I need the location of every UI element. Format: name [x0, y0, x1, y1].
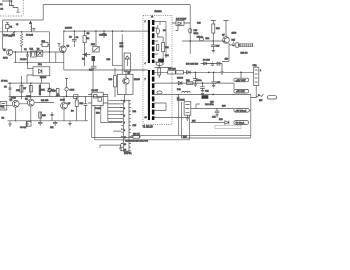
inductor L5: [182, 91, 190, 92]
svg-text:D8 C18: D8 C18: [203, 60, 211, 62]
inductor L2 vertical winding: [20, 32, 23, 52]
ground GND2: [25, 121, 28, 127]
ground GND1: [8, 121, 11, 127]
svg-text:C13: C13: [197, 23, 202, 25]
svg-text:C3: C3: [76, 37, 79, 39]
aux diode D15: [157, 91, 162, 94]
ferrite FB1 (dark): [202, 95, 209, 99]
svg-text:R7: R7: [24, 88, 27, 90]
svg-text:1M: 1M: [87, 33, 90, 35]
mains bus right: [58, 31, 146, 47]
IC U1 (controller): [123, 100, 129, 151]
junction D: [213, 72, 215, 74]
diode D11: [186, 70, 190, 74]
aux cap C14 (dark): [158, 59, 164, 63]
svg-text:2N60: 2N60: [232, 33, 238, 35]
svg-text:R12: R12: [80, 103, 85, 105]
pill +5V: [234, 89, 249, 93]
secondary tap wires: [154, 67, 189, 117]
svg-text:AC: AC: [0, 8, 3, 11]
svg-text:R38: R38: [219, 119, 224, 121]
TH1 stem: [93, 61, 95, 70]
svg-text:C16 1n: C16 1n: [197, 37, 203, 39]
svg-text:C945: C945: [70, 89, 76, 91]
transistor Q4: [27, 99, 34, 106]
HV rail: [189, 5, 191, 41]
feedback loop wires: [179, 94, 251, 139]
capacitor C12: [102, 31, 106, 38]
svg-text:C23: C23: [212, 117, 217, 119]
junction n10: [66, 96, 67, 97]
U1 pins right: [129, 100, 131, 150]
svg-text:R24: R24: [206, 38, 211, 40]
junction n8: [95, 30, 96, 31]
junction P1: [11, 0, 13, 2]
svg-text:Q5: Q5: [68, 103, 72, 105]
resistor R12: [75, 97, 78, 121]
junction n4: [122, 30, 123, 31]
vertical drops to bridge: [27, 63, 33, 83]
primary pin wires: [126, 31, 148, 70]
aux winding tap wires: [154, 22, 160, 63]
rail PS-ON wire: [191, 110, 251, 122]
junction B: [213, 40, 215, 42]
diode D14: [225, 121, 229, 125]
T1 primary bar: [148, 20, 150, 63]
thermistor block TH1 (dark): [92, 56, 96, 61]
svg-text:C7 331: C7 331: [1, 81, 8, 83]
bus y62.7: [14, 52, 64, 63]
resistor R8: [29, 86, 32, 93]
svg-text:C3: C3: [69, 37, 72, 39]
sense diode D7: [232, 42, 235, 47]
capacitor CX1: [12, 32, 15, 36]
svg-text:5V 20mA: 5V 20mA: [236, 122, 245, 125]
row y62 diode D8: [201, 62, 223, 67]
svg-text:R25: R25: [194, 30, 199, 32]
optocoupler U2: [88, 92, 108, 105]
svg-text:1: 1: [145, 21, 147, 23]
switch transistor box Q6: [117, 70, 145, 100]
svg-text:R4: R4: [87, 38, 90, 40]
svg-text:R22: R22: [165, 47, 170, 49]
ground GND4: [220, 64, 223, 75]
svg-text:C12 222: C12 222: [99, 35, 107, 37]
aux diode D6: [156, 25, 159, 37]
feedback wires to secondary: [131, 135, 190, 140]
svg-text:U2 817: U2 817: [92, 90, 99, 92]
junction n6: [74, 30, 75, 31]
junction n17: [30, 82, 31, 83]
junction E: [202, 82, 204, 84]
pill +12V: [234, 72, 249, 81]
diode D12: [178, 81, 182, 85]
svg-text:R19: R19: [96, 113, 101, 115]
transistor Q1: [7, 49, 13, 55]
filter cap C20: [211, 72, 216, 88]
base bus y105.7: [0, 103, 54, 106]
svg-text:R18: R18: [107, 59, 112, 61]
ground GND5: [186, 115, 189, 120]
bus y83: [8, 82, 50, 84]
svg-text:Q2: Q2: [67, 46, 71, 48]
junction n15: [9, 82, 10, 83]
svg-text:L3 2mH: L3 2mH: [26, 35, 34, 37]
svg-text:PC817: PC817: [95, 108, 102, 110]
diode D2 cluster: [82, 53, 90, 56]
svg-text:C21: C21: [205, 91, 210, 93]
T1 secondary winding segments lower: [152, 70, 155, 120]
svg-text:C5: C5: [4, 87, 7, 89]
zener ZD1: [48, 89, 51, 97]
svg-text:C25: C25: [133, 125, 138, 127]
svg-text:D3: D3: [71, 111, 74, 113]
svg-text:0R22: 0R22: [194, 33, 200, 35]
pill under-label box: [215, 125, 241, 128]
T1 internal wire: [157, 22, 166, 63]
junction n12: [27, 51, 28, 52]
ground GND7: [201, 93, 204, 96]
wire row y54: [13, 52, 64, 63]
svg-text:1000u: 1000u: [196, 80, 202, 82]
T1 secondary winding segments upper: [152, 20, 155, 63]
junction n1: [14, 31, 15, 32]
aux resistor R41: [157, 45, 159, 51]
capacitor C8: [51, 115, 54, 116]
sense resistor R27: [236, 43, 239, 47]
svg-text:R36: R36: [222, 106, 227, 108]
resistor pair R30: [168, 71, 184, 74]
U1 pins left: [121, 100, 123, 150]
svg-text:7: 7: [145, 79, 147, 81]
left edge box J2: [0, 102, 7, 111]
svg-text:BD1: BD1: [38, 64, 43, 66]
junction n9: [103, 30, 104, 31]
photoresistor box U3: [37, 50, 43, 56]
power switch SW1: [251, 94, 264, 97]
CY caps pair: [38, 121, 57, 126]
svg-text:K2645: K2645: [134, 79, 141, 81]
resistor R10b (dark): [39, 85, 41, 96]
box component X2: [26, 122, 31, 127]
svg-text:R11 150: R11 150: [41, 100, 49, 102]
resistor R33: [187, 82, 193, 85]
pill ACSW: [267, 96, 276, 99]
wire mains to filter: [3, 5, 191, 49]
svg-text:1: 1: [124, 101, 125, 103]
svg-text:3: 3: [124, 108, 125, 110]
U1 pin dots: [121, 100, 122, 101]
svg-text:R30 R31: R30 R31: [168, 69, 177, 71]
svg-text:100K: 100K: [40, 90, 45, 92]
rail standby wire: [191, 104, 234, 108]
junction n19: [15, 120, 16, 121]
svg-text:Q7: Q7: [222, 35, 226, 37]
cap C23: [215, 108, 220, 117]
rail +5V wire: [176, 82, 234, 84]
svg-text:7: 7: [124, 123, 125, 125]
capacitor C28: [84, 97, 88, 121]
resistor R10: [39, 112, 42, 118]
U1 pin numbers: [124, 101, 126, 152]
wire row y47: [3, 48, 7, 50]
svg-text:2M2: 2M2: [120, 46, 125, 48]
ground bus y120.8: [8, 106, 89, 121]
svg-text:C2: C2: [24, 49, 27, 51]
svg-text:13: 13: [124, 144, 126, 146]
svg-text:CX1: CX1: [11, 35, 16, 37]
J3 bottom wire: [255, 86, 257, 98]
svg-text:R28 0.5: R28 0.5: [241, 53, 249, 55]
svg-text:EE2519: EE2519: [155, 11, 163, 13]
output connector J3: [254, 67, 259, 85]
VCC tee 1: [211, 21, 216, 25]
junction C2a: [195, 72, 197, 74]
svg-text:C19: C19: [225, 59, 230, 61]
svg-text:DAP8A: DAP8A: [124, 152, 132, 155]
bus vertical links: [10, 76, 64, 102]
svg-text:RV1: RV1: [91, 44, 96, 46]
snubber box D9: [124, 53, 131, 71]
svg-text:10: 10: [145, 117, 148, 119]
resistor R13: [56, 88, 59, 96]
svg-text:+5V 100mA: +5V 100mA: [235, 109, 247, 112]
svg-text:L2: L2: [16, 24, 19, 26]
svg-text:C9 4n7: C9 4n7: [20, 127, 27, 129]
relay RL1: [30, 51, 36, 57]
bridge rectifier BD1: [33, 67, 50, 76]
svg-text:R15: R15: [120, 43, 125, 45]
junction n3: [112, 30, 113, 31]
capacitor C5: [9, 88, 12, 89]
aux resistor R22: [162, 37, 165, 52]
svg-text:D13003: D13003: [65, 28, 73, 30]
resistor R40 on wire: [74, 95, 79, 99]
svg-text:D16 C18 R29: D16 C18 R29: [186, 64, 199, 66]
svg-text:R27: R27: [232, 40, 237, 42]
snubber block D5: [172, 21, 190, 31]
diode D17: [65, 79, 68, 97]
aux resistor R23: [158, 63, 161, 78]
MOSFET Q7: [223, 37, 230, 44]
junction n20: [240, 72, 242, 74]
svg-text:Q4: Q4: [25, 98, 29, 100]
pill PSON: [234, 121, 249, 125]
pill 5VSB: [234, 108, 250, 112]
ground GND6: [194, 83, 197, 87]
svg-text:F1: F1: [10, 27, 13, 29]
thermistor RT1: [41, 43, 50, 53]
junction n7: [84, 30, 85, 31]
junction C: [208, 72, 210, 74]
capacitor C26: [91, 66, 97, 68]
junction F: [213, 94, 215, 96]
resistor R26: [212, 24, 215, 41]
capacitor C2: [26, 52, 29, 63]
svg-text:CN2: CN2: [253, 65, 258, 67]
junction n2: [21, 31, 22, 32]
svg-text:4: 4: [145, 63, 147, 65]
ground GND3: [68, 121, 71, 126]
svg-text:1: 1: [260, 70, 262, 72]
svg-text:RL1: RL1: [30, 49, 35, 51]
svg-text:Q1: Q1: [3, 50, 7, 52]
junction n18: [30, 120, 31, 121]
svg-text:SW: SW: [259, 100, 262, 102]
junction n13: [49, 51, 50, 52]
svg-text:T1 EEL25: T1 EEL25: [143, 127, 154, 129]
junction n11: [15, 51, 16, 52]
svg-text:C24 470u: C24 470u: [205, 104, 214, 106]
svg-text:9: 9: [124, 130, 125, 132]
aux cap C15 oval: [156, 62, 163, 65]
mains bus left: [0, 32, 49, 50]
Q2 emitter wire: [64, 53, 126, 93]
transistor Q5: [61, 102, 68, 109]
svg-text:C945: C945: [60, 100, 66, 102]
startup resistor R16: [114, 68, 117, 97]
svg-text:C945: C945: [11, 98, 17, 100]
T1 start arrow: [151, 15, 154, 18]
cap C21: [200, 83, 205, 93]
svg-text:C11: C11: [50, 127, 54, 129]
U1 left feed rail: [108, 95, 122, 122]
fuse F1: [6, 22, 9, 32]
svg-text:R10: R10: [42, 115, 47, 117]
svg-text:12V: 12V: [52, 90, 56, 92]
vreg connector J4: [184, 102, 191, 116]
transistor Q3: [12, 100, 19, 107]
transformer T1 enclosure (dotted): [143, 16, 172, 125]
svg-text:C14: C14: [165, 55, 170, 57]
wire bridge to bus: [41, 76, 43, 83]
svg-text:A733: A733: [3, 57, 9, 60]
svg-text:C17: C17: [216, 46, 221, 48]
cap C27: [193, 72, 198, 82]
resistor R4: [83, 31, 86, 66]
resistor R20: [131, 136, 141, 139]
svg-text:+12V OUT: +12V OUT: [236, 80, 247, 82]
zener D4: [48, 88, 51, 91]
gate bus: [182, 41, 229, 62]
svg-text:C2 104: C2 104: [20, 59, 27, 61]
transistor Q2: [60, 46, 67, 53]
svg-text:SB360: SB360: [177, 78, 184, 80]
U1 extra rungs: [100, 105, 121, 148]
current sense bar RS1: [240, 44, 253, 47]
svg-text:R20 1K: R20 1K: [133, 134, 140, 136]
svg-text:L1: L1: [0, 4, 3, 6]
svg-text:R21: R21: [133, 111, 138, 113]
svg-text:D12: D12: [177, 89, 182, 91]
gate cap C16: [199, 38, 203, 41]
resistor R7: [20, 86, 23, 93]
svg-text:D10 FR107: D10 FR107: [176, 19, 187, 21]
junction n5: [63, 30, 64, 31]
junction A: [189, 40, 191, 42]
rail 3V3 wire: [176, 83, 251, 94]
T1 primary bar lower: [148, 70, 150, 120]
VCC tee 2: [224, 21, 229, 37]
wire snubber drop: [113, 31, 123, 74]
source wire: [229, 44, 239, 46]
svg-text:5: 5: [124, 115, 125, 117]
AC input enclosure (dashed): [0, 0, 23, 16]
ground U1: [119, 144, 122, 150]
fusible R25: [189, 28, 192, 33]
connector P1 (AC inlet): [2, 0, 20, 12]
svg-text:C22: C22: [210, 102, 215, 104]
choke L3: [29, 21, 35, 32]
mid wire: [9, 96, 108, 98]
capacitor C3: [72, 31, 77, 47]
svg-text:R9: R9: [2, 118, 5, 120]
svg-text:R16: R16: [109, 79, 114, 81]
svg-text:15: 15: [124, 150, 126, 152]
opto feedback wire: [92, 105, 141, 139]
junction n16: [21, 82, 22, 83]
svg-text:R26: R26: [216, 28, 221, 30]
capacitor C17: [211, 41, 216, 53]
svg-text:U4 7805: U4 7805: [177, 100, 185, 102]
svg-text:+5V OUT: +5V OUT: [236, 91, 245, 93]
svg-text:RS205: RS205: [40, 77, 47, 79]
junction n14: [27, 62, 28, 63]
rail +12V wire: [184, 71, 254, 73]
varistor RV1: [93, 31, 99, 52]
svg-text:Q3: Q3: [10, 100, 14, 102]
